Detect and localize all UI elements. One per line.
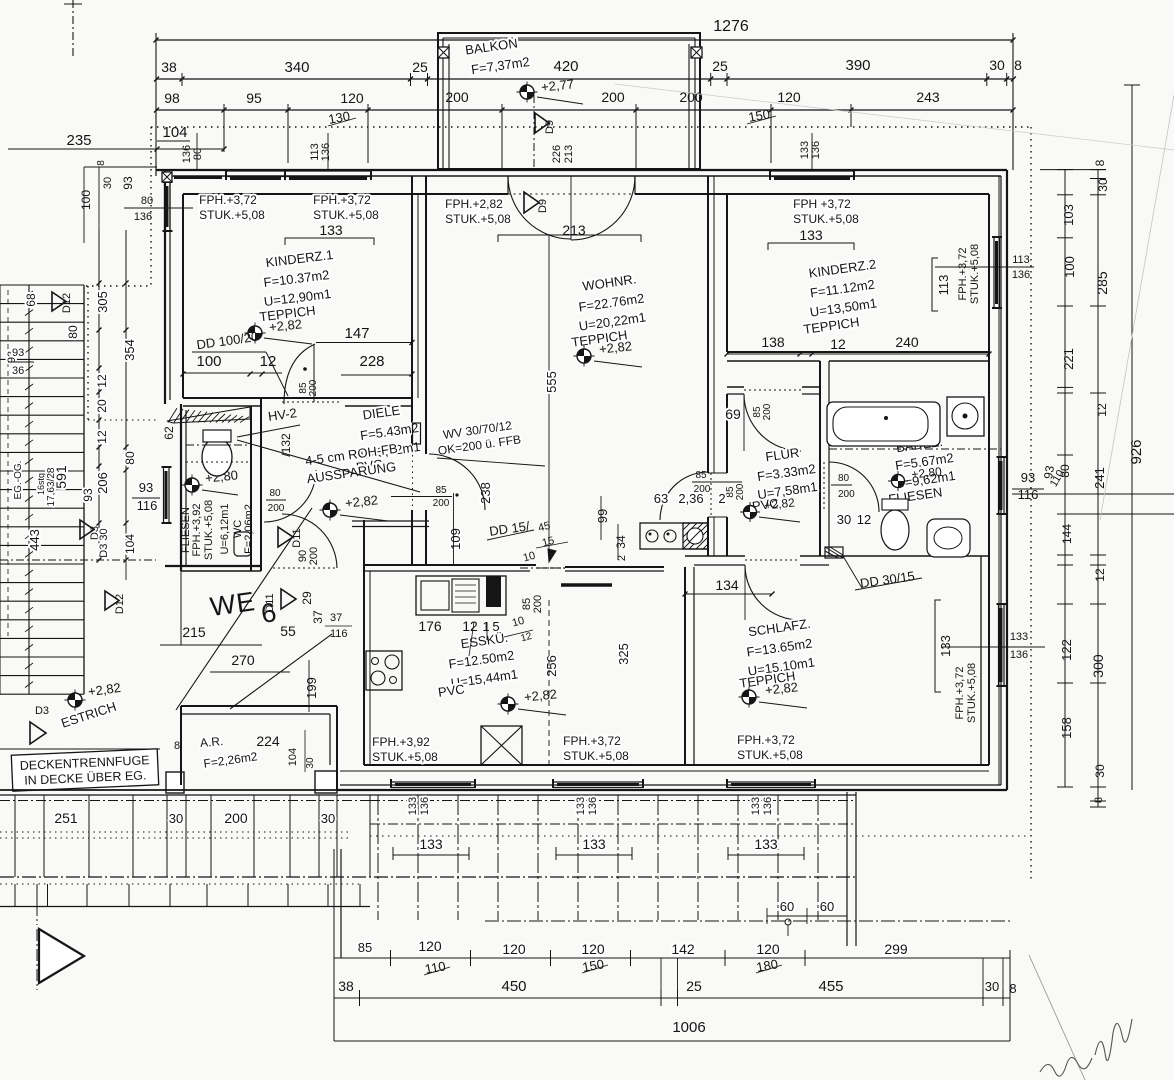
svg-text:30: 30 [102, 177, 114, 189]
door opening diele-wohnr dotted [412, 444, 414, 522]
door opening wohnr-flur dashed [710, 473, 712, 517]
svg-text:926: 926 [1128, 439, 1145, 464]
wc centerline [186, 444, 251, 446]
svg-text:8: 8 [174, 740, 180, 752]
svg-text:37: 37 [330, 612, 342, 624]
hatched shaft badez [825, 547, 843, 558]
window right wall kinderz2 [993, 237, 995, 308]
x-box shaft esskü [481, 726, 522, 765]
svg-text:100: 100 [1062, 256, 1077, 278]
triangle d3 bottom left [30, 722, 46, 744]
svg-text:200: 200 [601, 89, 625, 105]
wall wohnr/kinderz2 flur corridor [707, 176, 709, 473]
entrance diagonal ramp [176, 508, 312, 710]
outer wall top [156, 169, 1007, 171]
window left wall upper [164, 182, 166, 231]
wall corridor/kitchen west [352, 520, 429, 522]
svg-text:200: 200 [224, 810, 248, 826]
svg-text:80: 80 [269, 488, 281, 499]
svg-text:12: 12 [830, 336, 846, 352]
ar room walls [181, 705, 337, 707]
svg-text:100: 100 [196, 353, 221, 370]
outer wall left WC part [180, 404, 182, 571]
wall kinderz1/wohnzimmer [411, 176, 413, 454]
svg-text:103: 103 [1061, 204, 1076, 226]
level mark wohnr +2.82 [574, 355, 595, 357]
svg-text:A.R.: A.R. [199, 734, 223, 750]
svg-text:8: 8 [1014, 57, 1022, 73]
svg-text:390: 390 [845, 57, 870, 74]
svg-text:D11: D11 [291, 528, 303, 547]
svg-text:80: 80 [123, 451, 137, 465]
badez bathtub [827, 402, 940, 446]
svg-text:55: 55 [280, 623, 296, 639]
door wc 80/200 [250, 467, 252, 517]
balcony outline [438, 33, 700, 169]
dim row A 85-120-120-120-142-120-299 [334, 957, 1010, 959]
svg-text:104: 104 [123, 534, 137, 554]
window bottom esskü [391, 781, 475, 783]
door badez 80/200 [823, 462, 825, 512]
svg-text:243: 243 [916, 89, 940, 105]
svg-text:60: 60 [820, 899, 834, 914]
right chain line B [1097, 169, 1099, 807]
stair triangles mid [80, 520, 94, 539]
balcony door arcs [508, 176, 571, 239]
svg-text:104: 104 [287, 748, 299, 766]
svg-text:30: 30 [837, 512, 851, 527]
stair tread ticks [25, 291, 33, 297]
svg-text:FPH.+3,72: FPH.+3,72 [563, 734, 621, 748]
svg-text:133: 133 [1010, 631, 1028, 643]
svg-text:1006: 1006 [672, 1019, 705, 1036]
svg-text:12: 12 [1095, 403, 1109, 417]
svg-text:120: 120 [777, 89, 801, 105]
svg-text:FPH.+2,82: FPH.+2,82 [445, 197, 503, 211]
svg-text:30: 30 [1096, 178, 1110, 192]
svg-text:STUK.+5,08: STUK.+5,08 [199, 208, 265, 222]
svg-text:134: 134 [715, 577, 739, 593]
svg-text:136: 136 [762, 797, 774, 815]
svg-text:251: 251 [54, 810, 78, 826]
svg-text:25: 25 [412, 59, 428, 75]
svg-text:FPH.+3,72: FPH.+3,72 [313, 193, 371, 207]
svg-text:60: 60 [780, 899, 794, 914]
svg-text:176: 176 [418, 618, 442, 634]
dim chain row 38-340-25-420-25-390-30-8 [156, 78, 1013, 80]
outer wall bottom [334, 789, 1007, 791]
kitchen dark appliance [486, 576, 501, 607]
svg-text:8: 8 [1093, 797, 1105, 803]
svg-text:63: 63 [654, 491, 668, 506]
svg-text:200: 200 [433, 498, 450, 509]
svg-text:221: 221 [1061, 348, 1076, 370]
svg-text:104: 104 [162, 124, 187, 141]
dotted boundary left [87, 286, 89, 420]
svg-text:D3 30: D3 30 [98, 528, 110, 557]
level mark wc +2.80 [182, 484, 203, 486]
svg-text:5: 5 [492, 619, 499, 634]
svg-text:D9: D9 [537, 199, 549, 213]
svg-text:80: 80 [66, 325, 80, 339]
svg-text:FPH.+3,92: FPH.+3,92 [191, 504, 203, 557]
svg-text:241: 241 [1092, 467, 1107, 489]
level mark esskü +2.82 [498, 703, 519, 705]
svg-text:235: 235 [66, 132, 91, 149]
corner window band [174, 176, 222, 179]
estrich level mark [65, 699, 86, 701]
window bottom esskü2 [553, 781, 643, 783]
svg-text:93: 93 [81, 488, 95, 502]
pillar left of ar [166, 772, 184, 793]
badez washbasin [947, 397, 984, 436]
kitchen lintel bar [561, 583, 612, 587]
svg-text:8: 8 [1093, 159, 1107, 166]
wv underline [437, 458, 545, 466]
svg-text:325: 325 [616, 643, 631, 665]
svg-text:555: 555 [544, 371, 559, 393]
svg-text:FPH.+3,72: FPH.+3,72 [737, 733, 795, 747]
wall schlafz east inner [980, 556, 982, 765]
svg-text:62: 62 [162, 426, 176, 440]
svg-text:FPH.+3,72: FPH.+3,72 [954, 667, 966, 720]
svg-text:136: 136 [134, 211, 152, 223]
svg-text:80: 80 [141, 195, 153, 207]
svg-text:30: 30 [169, 811, 183, 826]
svg-text:1276: 1276 [713, 18, 749, 35]
dim chain row 98-95-120-200-200-200-120-243 [156, 109, 1013, 111]
wall wohnr west lower [411, 510, 413, 565]
wall kinderz2 south [727, 351, 989, 353]
svg-text:144: 144 [1060, 524, 1074, 544]
svg-text:133: 133 [419, 836, 443, 852]
wall top corner window symbol [162, 172, 172, 182]
svg-text:25: 25 [712, 58, 728, 74]
svg-text:29: 29 [300, 591, 314, 605]
svg-text:16stg: 16stg [36, 473, 46, 495]
badez bidet [927, 519, 970, 557]
svg-text:142: 142 [671, 941, 695, 957]
svg-text:30: 30 [1093, 764, 1107, 778]
svg-text:93: 93 [12, 347, 24, 359]
svg-text:STUK.+5,08: STUK.+5,08 [563, 749, 629, 763]
kitchen pass-through dashed [536, 567, 565, 569]
right page line 926 [1131, 85, 1133, 790]
svg-text:109: 109 [448, 528, 463, 550]
svg-text:93: 93 [121, 176, 135, 190]
svg-text:80: 80 [192, 148, 204, 160]
svg-text:12: 12 [1093, 568, 1107, 582]
svg-text:120: 120 [502, 941, 526, 957]
terrace left verticals upper [14, 795, 16, 877]
balcony door D9 triangle [524, 192, 539, 213]
svg-text:2,36: 2,36 [678, 491, 703, 506]
svg-text:STUK.+5,08: STUK.+5,08 [313, 208, 379, 222]
stairs upper block [0, 284, 84, 286]
svg-text:FPH +3,72: FPH +3,72 [793, 197, 851, 211]
dim row B 38-450-25-455-30-8 [334, 997, 1010, 999]
svg-text:226: 226 [551, 145, 563, 163]
svg-text:224: 224 [256, 733, 280, 749]
svg-text:EG.-OG.: EG.-OG. [13, 461, 24, 500]
window left wall WC [163, 467, 165, 523]
svg-text:116: 116 [137, 498, 158, 513]
svg-text:200: 200 [308, 379, 319, 396]
door arc schlafz [745, 565, 800, 620]
svg-text:12: 12 [95, 430, 109, 444]
dim 555 wohnr vertical [548, 234, 550, 556]
door arc flur [744, 394, 801, 451]
svg-text:215: 215 [182, 624, 206, 640]
svg-text:37: 37 [311, 610, 325, 624]
svg-text:69: 69 [725, 406, 741, 422]
svg-text:34: 34 [614, 535, 628, 549]
balcony corner symbol right [691, 47, 702, 58]
svg-text:455: 455 [818, 978, 843, 995]
svg-text:133: 133 [575, 797, 587, 815]
svg-text:256: 256 [544, 655, 559, 677]
svg-text:238: 238 [478, 482, 493, 504]
balcony corner symbol left [438, 47, 449, 58]
badez separation dashdot [829, 448, 1001, 450]
svg-text:138: 138 [761, 334, 785, 350]
kitchen stove [366, 651, 402, 690]
svg-text:2: 2 [718, 491, 725, 506]
svg-text:340: 340 [284, 59, 309, 76]
svg-text:206: 206 [95, 472, 110, 494]
door opening kinderz1 dashed [282, 401, 341, 403]
svg-text:85: 85 [435, 485, 447, 496]
svg-text:133: 133 [407, 797, 419, 815]
big triangle bottom left [39, 929, 84, 983]
svg-text:U=6,12m1: U=6,12m1 [219, 503, 231, 554]
kitchen counter top [416, 576, 506, 615]
level mark flur +2.82 [740, 511, 760, 513]
pillar right of ar [315, 771, 337, 793]
kinderz1 window 2 [285, 170, 371, 172]
svg-text:299: 299 [884, 941, 908, 957]
door arc wohnr-flur [660, 472, 708, 520]
svg-text:STUK.+5,08: STUK.+5,08 [969, 244, 981, 304]
svg-text:213: 213 [563, 145, 575, 163]
svg-text:116: 116 [330, 628, 348, 640]
svg-text:113: 113 [1012, 254, 1030, 266]
deckentrennfuge box [11, 749, 158, 791]
outer wall right [1006, 170, 1008, 790]
terrace mid block [370, 794, 856, 796]
svg-text:STUK.+5,08: STUK.+5,08 [203, 500, 215, 560]
svg-text:354: 354 [122, 339, 137, 361]
kinderz2 window [770, 170, 854, 172]
svg-text:450: 450 [501, 978, 526, 995]
wall wc east [250, 406, 252, 571]
svg-text:F=2,06m2: F=2,06m2 [243, 504, 255, 554]
svg-text:FPH.+3,72: FPH.+3,72 [957, 248, 969, 301]
svg-text:136: 136 [419, 797, 431, 815]
svg-text:200: 200 [838, 489, 855, 500]
svg-text:WE: WE [208, 586, 257, 622]
wall kitchen north [364, 564, 536, 566]
wall flur north with door [727, 386, 744, 388]
left chain bottom dashdot [0, 559, 156, 561]
svg-text:133: 133 [319, 222, 343, 238]
svg-text:25: 25 [686, 978, 702, 994]
wall kinderz1 south / diele north [183, 397, 412, 399]
svg-text:147: 147 [344, 325, 369, 342]
window right wall badez [998, 457, 1000, 514]
svg-text:12: 12 [95, 374, 109, 388]
svg-text:158: 158 [1059, 717, 1074, 739]
svg-text:199: 199 [304, 677, 319, 699]
level mark diele +2.82 [320, 509, 341, 511]
door arc diele-wohnr [429, 454, 485, 510]
wall left of entrance [180, 571, 182, 645]
black arrow dd15 [548, 549, 556, 562]
svg-text:113: 113 [936, 275, 951, 296]
svg-text:20: 20 [95, 399, 109, 413]
svg-text:8: 8 [96, 160, 107, 166]
right chain ticks [1057, 169, 1073, 171]
right dotted boundary [1030, 127, 1032, 880]
level mark badez +2.80 [888, 480, 908, 482]
kitchen sink unit by flur [640, 523, 708, 549]
svg-text:120: 120 [581, 941, 605, 957]
svg-text:100: 100 [79, 190, 93, 210]
svg-text:420: 420 [553, 58, 578, 75]
svg-text:200: 200 [308, 547, 320, 565]
terrace left verticals lower [14, 884, 16, 907]
svg-text:270: 270 [231, 652, 255, 668]
door opening schlafz dashed [745, 559, 800, 561]
svg-text:STUK.+5,08: STUK.+5,08 [737, 748, 803, 762]
wc left wall dim ticks [88, 419, 156, 421]
svg-text:30: 30 [985, 979, 999, 994]
wall schlafz north with door [685, 555, 745, 557]
svg-text:1: 1 [482, 619, 489, 634]
wall esskü/schlafz [684, 567, 686, 765]
right diagonal crease [1100, 95, 1174, 520]
svg-text:85: 85 [358, 940, 372, 955]
door opening flur dashed [744, 389, 802, 391]
svg-text:85: 85 [695, 470, 707, 481]
svg-text:30: 30 [989, 57, 1005, 73]
svg-text:80: 80 [838, 473, 850, 484]
hatched shaft kitchen [683, 523, 708, 549]
svg-text:133: 133 [799, 227, 823, 243]
svg-text:136: 136 [1012, 269, 1030, 281]
svg-text:133: 133 [754, 836, 778, 852]
dim line 109 [453, 493, 455, 565]
svg-text:120: 120 [756, 941, 780, 957]
level mark schlafz +2.82 [739, 696, 760, 698]
svg-text:240: 240 [895, 334, 919, 350]
svg-text:D12: D12 [114, 594, 126, 614]
svg-text:200: 200 [735, 483, 746, 500]
svg-text:68: 68 [24, 293, 38, 307]
svg-text:38: 38 [338, 978, 354, 994]
wc toilet [202, 438, 232, 476]
hatched lintel above wc [167, 407, 250, 423]
svg-text:133: 133 [750, 797, 762, 815]
stair arrow down [28, 560, 30, 620]
svg-text:D12: D12 [61, 293, 73, 313]
svg-text:STUK.+5,08: STUK.+5,08 [372, 750, 438, 764]
svg-text:443: 443 [27, 529, 42, 551]
svg-text:98: 98 [164, 90, 180, 106]
svg-text:36: 36 [12, 365, 24, 377]
svg-text:93: 93 [1021, 470, 1035, 485]
front door swing [273, 567, 337, 569]
terrace mid verticals [377, 795, 379, 920]
svg-text:133: 133 [582, 836, 606, 852]
level mark kinderz1 +2.82 [245, 332, 266, 334]
svg-text:300: 300 [1090, 654, 1106, 678]
svg-text:228: 228 [359, 353, 384, 370]
svg-text:136: 136 [320, 143, 332, 161]
svg-text:30: 30 [321, 811, 335, 826]
badez toilet [882, 499, 908, 510]
svg-text:285: 285 [1094, 271, 1110, 295]
right chain line A [1064, 169, 1066, 787]
svg-text:93: 93 [139, 480, 153, 495]
right long horizontals [1012, 493, 1174, 495]
svg-text:12: 12 [857, 512, 871, 527]
svg-text:/132: /132 [279, 433, 293, 457]
svg-text:120: 120 [418, 938, 442, 954]
balcony door axis symbol D9 [535, 113, 549, 133]
svg-text:30: 30 [305, 757, 316, 769]
outer wall left [155, 170, 157, 176]
dim chain total 1276 [156, 39, 1013, 41]
kinderz1 window 1 [226, 170, 285, 172]
stair rail dashed [7, 290, 9, 636]
svg-text:305: 305 [95, 291, 110, 313]
svg-text:136: 136 [587, 797, 599, 815]
door d11 triangles [278, 527, 293, 547]
svg-text:200: 200 [268, 503, 285, 514]
svg-text:133: 133 [938, 635, 953, 657]
wc shower tray [234, 532, 251, 556]
window bottom schlafz [727, 781, 815, 783]
signature squiggle bottom right [1040, 1057, 1092, 1076]
svg-text:17,63/28: 17,63/28 [46, 467, 57, 506]
svg-text:FPH.+3,92: FPH.+3,92 [372, 735, 430, 749]
svg-text:200: 200 [762, 403, 773, 420]
svg-text:213: 213 [562, 222, 586, 238]
door leaf wohnr entry [413, 423, 421, 444]
svg-text:12: 12 [462, 618, 478, 634]
svg-text:95: 95 [246, 90, 262, 106]
dim row C 1006 [334, 1040, 1010, 1042]
svg-text:STUK.+5,08: STUK.+5,08 [793, 212, 859, 226]
svg-text:STUK.+5,08: STUK.+5,08 [445, 212, 511, 226]
wall flur/badez [819, 361, 821, 556]
dotted roof outline top [151, 126, 1033, 128]
svg-text:STUK.+5,08: STUK.+5,08 [966, 663, 978, 723]
svg-text:120: 120 [340, 90, 364, 106]
svg-text:99: 99 [595, 509, 610, 523]
window right wall schlafz [998, 604, 1000, 686]
right bottom diagonal [1029, 955, 1085, 1080]
svg-text:D9: D9 [544, 120, 556, 134]
svg-text:D11: D11 [264, 593, 276, 612]
balcony door opening [507, 176, 509, 194]
svg-text:136: 136 [1010, 649, 1028, 661]
terrace left block [0, 748, 160, 750]
balcony level mark +2.77 [517, 91, 538, 93]
svg-text:38: 38 [161, 59, 177, 75]
door arc kinderz1 [284, 344, 315, 404]
